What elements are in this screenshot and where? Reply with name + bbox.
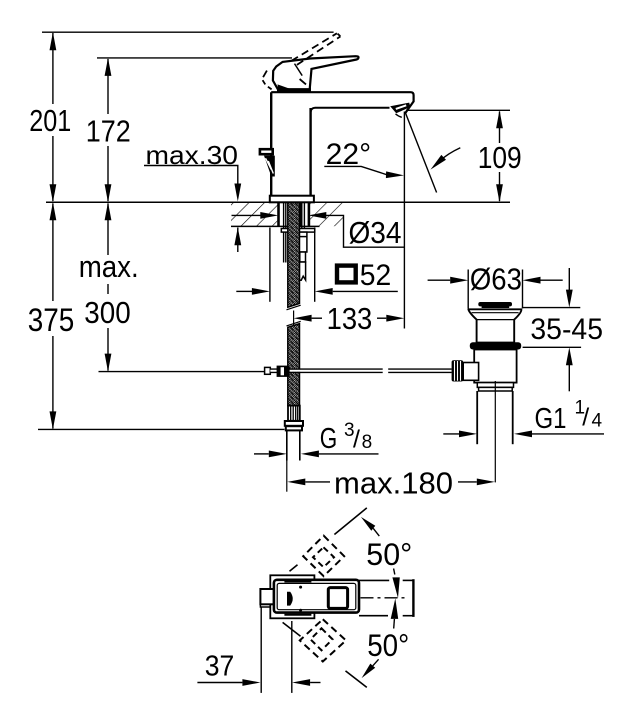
pop-up rod tab on body — [260, 149, 275, 176]
svg-text:8: 8 — [362, 432, 373, 453]
spout height reference line — [406, 109, 510, 111]
flexible hose upper segment — [287, 203, 301, 310]
spout end square plan — [328, 588, 347, 609]
counter hatch left — [231, 203, 278, 227]
drain gasket washer — [470, 342, 521, 349]
hose nut G3/8 — [285, 421, 303, 430]
cartridge D mark — [287, 592, 293, 606]
drain coupling rings — [477, 383, 513, 391]
dimension max.300 — [79, 202, 265, 371]
svg-text:max.180: max.180 — [334, 465, 453, 500]
hose centre mark in break — [293, 311, 295, 326]
svg-text:37: 37 — [205, 651, 235, 683]
dimension 375 — [28, 202, 285, 429]
shank in counter hole — [279, 203, 309, 263]
dimension G3/8 — [254, 420, 379, 458]
base square plan — [270, 575, 314, 618]
svg-text:35-45: 35-45 — [530, 313, 603, 346]
drain flange Ø63 — [468, 309, 521, 342]
svg-text:max.: max. — [79, 249, 139, 284]
svg-text:50°: 50° — [367, 627, 409, 663]
mounting plate under counter — [281, 229, 314, 233]
handle lever raised (dashed) — [263, 33, 341, 89]
handle end cap plan — [260, 589, 274, 604]
dimension 35-45 — [522, 268, 603, 391]
mounting stud and nut — [299, 232, 307, 280]
svg-text:4: 4 — [592, 411, 603, 432]
handle joint dark band — [277, 87, 311, 92]
counter hatch right — [310, 203, 345, 227]
lower dashed handle inner — [311, 628, 333, 650]
drain body — [474, 350, 516, 383]
counter bottom line — [231, 225, 320, 227]
svg-text:Ø63: Ø63 — [470, 262, 522, 297]
flexible hose lower segment — [287, 321, 301, 405]
lower dashed handle outer — [300, 619, 346, 661]
upper swing arrowhead — [361, 517, 379, 536]
upper dashed handle inner — [313, 547, 334, 567]
svg-text:50°: 50° — [366, 536, 412, 572]
upper dashed handle outer — [303, 536, 344, 577]
upper 50 leader to centreline — [392, 569, 399, 599]
faucet trunk — [271, 92, 310, 196]
spout aerator tip — [390, 103, 410, 118]
svg-text:52: 52 — [360, 259, 392, 292]
spout arm — [271, 92, 413, 114]
counter top line — [46, 201, 510, 203]
base plate — [270, 196, 314, 203]
svg-text:Ø34: Ø34 — [349, 215, 402, 250]
spout arm lines plan — [359, 580, 413, 615]
drain tailpipe G1 1/4 — [477, 391, 513, 444]
handle lever solid — [273, 56, 359, 91]
drain centreline — [494, 381, 496, 482]
svg-text:172: 172 — [86, 114, 131, 149]
drain plug cap — [478, 302, 512, 308]
pop-up rod horizontal — [265, 366, 452, 377]
centreline dash-dot — [361, 597, 409, 599]
lower swing diagonal — [283, 622, 367, 687]
dimension square52 — [236, 228, 397, 302]
water stream 22 degree line — [405, 112, 436, 192]
svg-text:G1: G1 — [535, 403, 567, 435]
screw dots — [299, 586, 302, 589]
drain knurled knob — [452, 360, 464, 381]
plumb line from spout — [403, 112, 405, 329]
dimension 133 — [294, 301, 405, 336]
upper swing diagonal — [290, 508, 367, 571]
dimension max.30 — [144, 140, 241, 252]
svg-text:G: G — [320, 423, 338, 455]
lower swing arrowhead — [362, 659, 379, 678]
dimension 22 degrees — [324, 138, 460, 179]
dimension Ø63 — [428, 262, 563, 309]
dimension max.180 — [287, 465, 495, 500]
dimension 109 — [478, 110, 522, 202]
dimension G1 1/4 — [443, 398, 604, 438]
G3/8 nipple — [287, 431, 300, 492]
dimension 37 — [197, 607, 320, 693]
handle lever plan — [274, 580, 359, 613]
svg-text:300: 300 — [84, 295, 130, 330]
svg-text:/: / — [353, 426, 360, 454]
svg-text:201: 201 — [29, 103, 71, 138]
bracket right edge — [412, 579, 414, 617]
drain side port — [463, 363, 478, 381]
svg-text:375: 375 — [28, 302, 75, 338]
dimension Ø34 — [232, 212, 405, 250]
dimension 172 — [86, 58, 292, 202]
lower 50 leader to centreline — [391, 598, 399, 628]
dimension 201 — [29, 32, 333, 202]
svg-text:/: / — [582, 404, 589, 432]
svg-text:109: 109 — [478, 140, 522, 175]
edge shadow lines — [284, 580, 311, 582]
svg-text:133: 133 — [327, 301, 373, 336]
hose compression ferrule — [288, 406, 300, 421]
